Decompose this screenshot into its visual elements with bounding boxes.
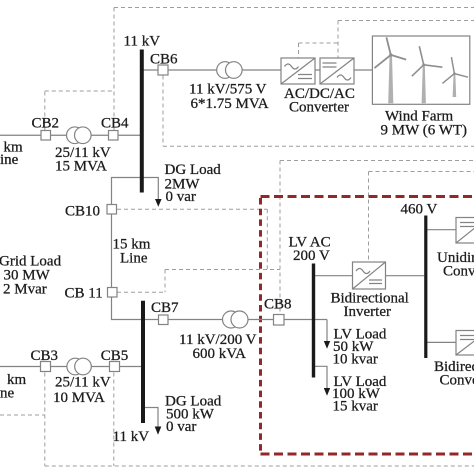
breaker CB2 — [41, 131, 51, 141]
svg-text:0 var: 0 var — [166, 419, 196, 435]
wire dashed CB5 drop — [113, 373, 115, 467]
wire dashed drop to converter 2 — [337, 21, 339, 58]
bus 11 kV top — [140, 50, 144, 193]
wind turbine WT3 — [442, 57, 468, 97]
wind farm box — [372, 36, 469, 104]
svg-text:25/11 kV: 25/11 kV — [55, 375, 111, 391]
wire inverter left — [314, 275, 353, 277]
wire dashed CB10 right — [117, 208, 267, 210]
breaker CB10 — [107, 205, 117, 215]
wire 15 km line upper segment — [111, 214, 113, 287]
arrow LV load 1 — [324, 341, 330, 349]
svg-text:9 MW (6 WT): 9 MW (6 WT) — [381, 123, 468, 139]
wire dashed bottom horizontal y466 — [45, 465, 474, 467]
wire CB2-CB4 feeder y135.25 — [0, 134, 142, 136]
svg-text:ne: ne — [0, 385, 15, 401]
breaker CB5 — [110, 362, 120, 372]
wire dashed CB11 right — [117, 291, 165, 293]
wire dashed left horizontal y415 — [0, 414, 45, 416]
wire dashed horizontal y43 to converter 1 — [299, 42, 339, 44]
wire CB3-CB5 feeder y366.5 — [0, 366, 143, 368]
svg-text:CB8: CB8 — [264, 296, 292, 312]
wire LV load 2 branch — [315, 366, 327, 388]
transformer T2 11 kV/575 V — [217, 62, 234, 79]
wire unidirectional converter — [426, 229, 456, 231]
breaker CB3 — [41, 362, 51, 372]
wire inverter right — [386, 275, 425, 277]
breaker CB6 — [158, 65, 168, 75]
arrow DG load 2 — [155, 427, 162, 435]
wire bidirectional converter — [426, 341, 456, 343]
wire dashed drop to inverter — [368, 172, 370, 262]
svg-text:10 MVA: 10 MVA — [53, 390, 105, 406]
bus 11 kV bottom — [141, 301, 145, 423]
wire dashed x165 riser — [164, 270, 166, 293]
svg-text:CB6: CB6 — [150, 52, 178, 68]
svg-text:200 V: 200 V — [293, 248, 330, 264]
svg-text:ine: ine — [0, 152, 19, 168]
wire dashed horizontal y160.5 — [280, 160, 474, 162]
svg-text:Converter: Converter — [289, 100, 349, 116]
wire dashed horizontal y20.5 to converter 2 — [338, 20, 474, 22]
breaker CB7 — [159, 315, 169, 325]
svg-text:CB5: CB5 — [101, 348, 129, 364]
breaker CB8 — [274, 315, 285, 326]
wire dashed CB2 control riser — [44, 91, 46, 131]
transformer T1 25/11 kV 15 MVA — [67, 127, 84, 144]
transformer T4 25/11 kV 10 MVA — [67, 358, 84, 375]
svg-text:CB 11: CB 11 — [65, 286, 103, 302]
svg-text:2 Mvar: 2 Mvar — [3, 281, 47, 297]
wire dashed horizontal y269.5 — [165, 269, 280, 271]
svg-text:CB7: CB7 — [151, 300, 179, 316]
wire dashed control horizontal y91 — [45, 90, 114, 92]
wire dashed x267 drop — [266, 209, 268, 269]
wire 15 km line lower segment — [112, 297, 144, 319]
svg-text:11 kV: 11 kV — [124, 34, 161, 50]
arrow LV load 2 — [324, 388, 330, 396]
wire dashed top horizontal y7.5 — [114, 7, 474, 9]
wire dashed drop to converter 1 — [298, 43, 300, 58]
svg-text:Line: Line — [120, 250, 148, 266]
arrow DG load 1 — [155, 199, 162, 207]
wire LV load 1 drop — [326, 320, 328, 342]
svg-text:CB10: CB10 — [65, 203, 100, 219]
svg-text:CB2: CB2 — [32, 116, 60, 132]
converter U2 DC/AC block — [320, 58, 354, 84]
svg-text:6*1.75 MVA: 6*1.75 MVA — [191, 96, 269, 112]
converter U4 unidirectional converter — [456, 218, 474, 244]
wire CB6 feeder y70 — [142, 69, 373, 71]
svg-text:460 V: 460 V — [401, 201, 438, 217]
wire DG load 1 branch — [112, 178, 159, 205]
breaker CB11 — [108, 288, 118, 298]
converter U3 bidirectional inverter — [353, 262, 386, 289]
svg-text:15 MVA: 15 MVA — [55, 158, 107, 174]
wind turbine WT1 — [374, 37, 406, 103]
wire dashed horizontal y146.3 — [163, 145, 474, 147]
svg-text:0 var: 0 var — [166, 189, 196, 205]
svg-text:Converter: Converter — [443, 263, 474, 279]
transformer T3 11 kV/200 V — [223, 311, 240, 328]
converter U1 AC/DC block — [281, 58, 315, 84]
bus DC 460 V — [424, 216, 427, 359]
svg-text:CB3: CB3 — [31, 348, 59, 364]
svg-text:Inverter: Inverter — [344, 304, 391, 320]
svg-text:600 kVA: 600 kVA — [193, 346, 247, 362]
svg-text:Converter: Converter — [440, 372, 474, 388]
wire CB7-CB8 feeder y319.5 — [143, 319, 327, 321]
wire dashed CB8 riser x280 — [279, 161, 281, 315]
svg-text:CB4: CB4 — [101, 116, 129, 132]
wire DG load 2 branch — [143, 408, 158, 427]
wire dashed CB6 drop — [162, 76, 164, 147]
wire dashed CB4 control riser x114 — [113, 8, 115, 131]
breaker CB4 — [109, 131, 119, 141]
bus LV AC 200 V — [312, 264, 315, 378]
svg-text:11 kV: 11 kV — [113, 429, 150, 445]
wire dashed CB3 drop — [44, 373, 46, 467]
converter U5 bidirectional converter — [456, 331, 474, 356]
wind turbine WT2 — [412, 46, 443, 103]
wire dashed horizontal y171.5 — [369, 171, 474, 173]
microgrid boundary (red dashed box) — [261, 197, 474, 455]
svg-text:10 kvar: 10 kvar — [333, 352, 378, 368]
svg-text:15 kvar: 15 kvar — [333, 398, 378, 414]
